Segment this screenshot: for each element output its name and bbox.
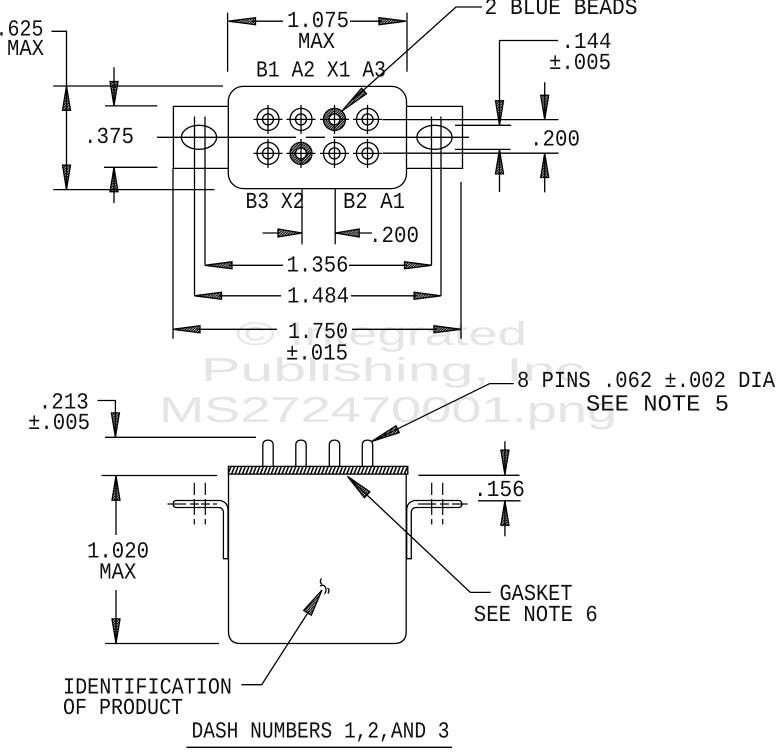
pin A2 xyxy=(287,105,316,134)
right bracket hole centerline vertical 2 xyxy=(442,483,444,525)
svg-text:8 PINS .062 ±.002 DIA: 8 PINS .062 ±.002 DIA xyxy=(517,368,775,394)
svg-text:1.484: 1.484 xyxy=(287,284,349,310)
left bracket hole centerline vertical 1 xyxy=(193,483,195,525)
dim .200 bottom (pin spacing) xyxy=(263,189,419,249)
.144 reference line lower xyxy=(455,148,511,150)
leader 8 pins xyxy=(372,368,776,442)
pin 4 side xyxy=(362,440,372,466)
.144 reference line upper xyxy=(455,124,511,126)
leader 2 blue beads xyxy=(342,0,638,111)
pin 1 side xyxy=(263,440,273,466)
svg-text:1.356: 1.356 xyxy=(287,253,349,279)
svg-text:±.005: ±.005 xyxy=(549,50,611,76)
svg-text:DASH NUMBERS 1,2,AND 3: DASH NUMBERS 1,2,AND 3 xyxy=(192,719,450,745)
pin row line lower extended xyxy=(383,152,559,154)
svg-text:MAX: MAX xyxy=(99,560,136,586)
svg-text:.200: .200 xyxy=(530,126,580,152)
relay body top view xyxy=(228,86,406,188)
leader gasket xyxy=(348,476,598,628)
pin B2 xyxy=(320,139,349,168)
svg-text:±.005: ±.005 xyxy=(28,410,90,436)
svg-text:MAX: MAX xyxy=(298,29,335,55)
left ear slot hole xyxy=(181,125,216,149)
svg-text:© Integrated: © Integrated xyxy=(236,315,527,352)
dim 1.750 ±.015 xyxy=(173,168,461,366)
pin row line upper extended xyxy=(383,119,559,121)
left bracket horizontal centerline xyxy=(168,503,218,505)
right ear slot hole xyxy=(417,125,452,149)
pin A1 xyxy=(353,139,382,168)
title dash numbers xyxy=(186,719,452,748)
leader identification of product xyxy=(63,590,322,721)
dim .625 MAX xyxy=(0,17,223,190)
svg-text:B3 X2: B3 X2 xyxy=(246,189,305,215)
pin 3 side xyxy=(329,440,339,466)
slot centerline / 1.356 extension left xyxy=(204,117,206,266)
pin labels bottom row xyxy=(246,189,406,215)
right mounting ear xyxy=(407,106,463,168)
slot centerline / 1.484 extension right xyxy=(440,117,442,296)
pin X2 (hatched, blue bead) xyxy=(287,139,316,168)
svg-text:OF PRODUCT: OF PRODUCT xyxy=(63,695,183,721)
dim .213 ±.005 xyxy=(28,390,256,438)
right bracket xyxy=(407,501,462,559)
left mounting ear xyxy=(173,106,228,168)
dim .156 xyxy=(418,441,525,536)
horizontal centerline xyxy=(157,136,469,138)
left bracket xyxy=(173,501,228,559)
left bracket hole centerline vertical 2 xyxy=(204,483,206,525)
pin X1 (hatched, blue bead) xyxy=(320,105,349,134)
svg-text:MAX: MAX xyxy=(7,36,44,62)
slot centerline / 1.484 extension left xyxy=(194,117,196,296)
pin 2 side xyxy=(296,440,306,466)
pin labels top row xyxy=(256,57,386,83)
dim 1.484 xyxy=(195,284,442,310)
dim 1.075 MAX xyxy=(228,8,407,72)
dim .200 right side xyxy=(530,82,580,192)
svg-text:B1 A2 X1 A3: B1 A2 X1 A3 xyxy=(256,57,386,83)
slot centerline / 1.356 extension right xyxy=(431,117,433,266)
watermark xyxy=(159,315,617,430)
pin B3 xyxy=(254,139,283,168)
svg-text:SEE NOTE 6: SEE NOTE 6 xyxy=(474,602,598,628)
svg-text:MS272470001.png: MS272470001.png xyxy=(159,389,617,430)
svg-text:.156: .156 xyxy=(474,477,525,503)
dim .144 ±.005 xyxy=(496,29,612,192)
svg-text:B2 A1: B2 A1 xyxy=(343,189,405,215)
gasket strip (hatched) xyxy=(228,466,407,474)
dim 1.356 xyxy=(205,253,432,279)
dim 1.020 MAX xyxy=(87,476,219,644)
svg-text:SEE NOTE 5: SEE NOTE 5 xyxy=(586,391,729,417)
right bracket hole centerline vertical 1 xyxy=(431,483,433,525)
right bracket horizontal centerline xyxy=(418,503,468,505)
svg-text:.375: .375 xyxy=(84,124,134,150)
svg-text:2 BLUE BEADS: 2 BLUE BEADS xyxy=(485,0,638,21)
pin B1 xyxy=(254,105,283,134)
pin A3 xyxy=(353,105,382,134)
svg-text:.200: .200 xyxy=(369,223,419,249)
identification squiggle xyxy=(320,579,329,595)
can body side view xyxy=(229,474,407,643)
dim .375 xyxy=(84,67,157,203)
svg-text:±.015: ±.015 xyxy=(286,341,348,367)
